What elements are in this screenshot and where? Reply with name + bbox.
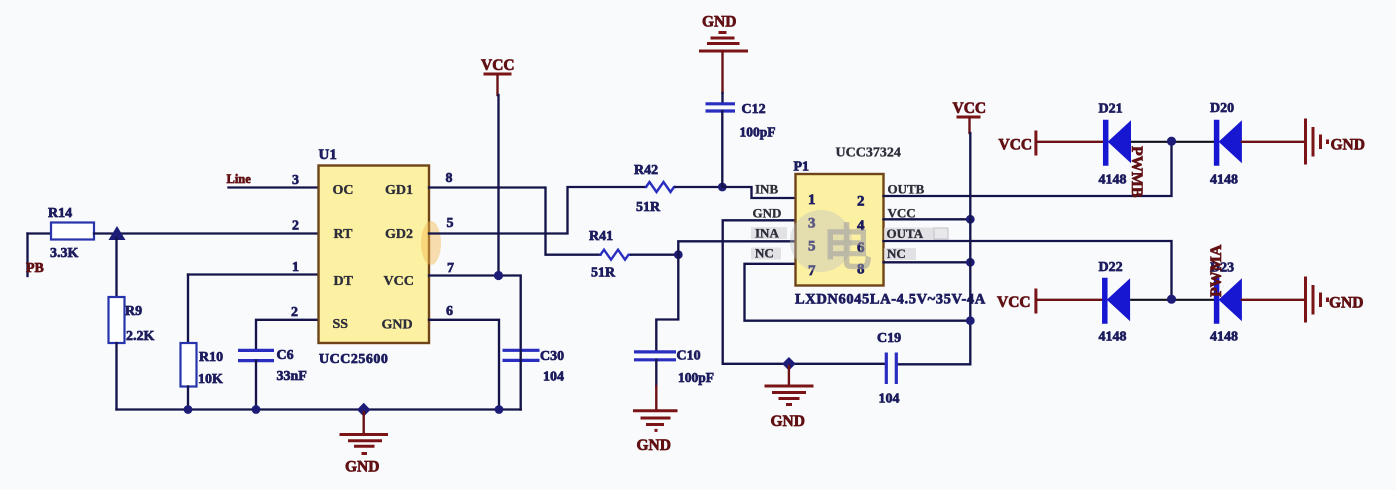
svg-text:2.2K: 2.2K: [126, 329, 155, 344]
resistor R9: [109, 297, 155, 344]
capacitor C19: [877, 331, 901, 407]
junction pin8: [966, 258, 975, 267]
svg-text:UCC25600: UCC25600: [319, 352, 388, 367]
wire P1 pin2 OUTB: [884, 142, 1172, 196]
svg-text:R42: R42: [634, 163, 658, 178]
svg-text:INA: INA: [755, 226, 779, 241]
svg-text:P1: P1: [794, 160, 810, 175]
resistor R10: [181, 343, 224, 387]
svg-text:RT: RT: [334, 227, 354, 242]
wire U1 pin8 GD1 to R41: [429, 188, 601, 255]
svg-text:D22: D22: [1099, 260, 1123, 275]
wire C30 to rail: [520, 360, 522, 409]
svg-text:51R: 51R: [591, 266, 616, 281]
svg-text:R41: R41: [589, 229, 613, 244]
wire U1 pin6 GND down: [429, 320, 499, 410]
svg-text:GND: GND: [1331, 137, 1365, 154]
svg-text:GND: GND: [753, 206, 782, 221]
svg-text:VCC: VCC: [888, 206, 916, 221]
svg-text:R10: R10: [199, 350, 223, 365]
wire D22 to D23: [1130, 299, 1217, 301]
junction diamond mid GND: [782, 357, 796, 371]
ground symbol right bottom (rotated): [1306, 277, 1364, 323]
svg-text:GND: GND: [1329, 295, 1363, 312]
capacitor C6: [238, 348, 307, 384]
power VCC label D22 row: [997, 289, 1036, 314]
wire P1 pin6 OUTA: [884, 241, 1172, 299]
svg-text:4148: 4148: [1210, 330, 1238, 345]
diode D22: [1099, 260, 1131, 345]
svg-text:GD2: GD2: [385, 227, 413, 242]
svg-text:电: 电: [822, 220, 872, 276]
svg-text:NC: NC: [887, 246, 906, 261]
wire C10 to ground: [655, 360, 657, 411]
wire R41 to junction: [631, 254, 678, 256]
wire U1 pin SS to C6: [256, 320, 319, 350]
svg-text:GND: GND: [637, 437, 671, 454]
svg-text:33nF: 33nF: [277, 369, 307, 384]
svg-text:Line: Line: [227, 172, 252, 186]
junction C12 INB: [718, 183, 727, 192]
wire C12 to INB junction: [721, 111, 723, 187]
svg-text:D21: D21: [1099, 102, 1123, 117]
wire junction down to R9: [115, 238, 117, 299]
svg-text:100pF: 100pF: [678, 370, 714, 385]
wire C6 to rail: [255, 361, 257, 410]
svg-text:GD1: GD1: [385, 183, 413, 198]
wire top GND to C12: [721, 93, 723, 104]
svg-text:PWMB: PWMB: [1128, 146, 1145, 198]
node INA label: [751, 226, 787, 241]
svg-text:VCC: VCC: [953, 100, 987, 117]
wire VCC mid vertical: [896, 133, 970, 364]
svg-text:8: 8: [446, 171, 453, 186]
svg-text:2: 2: [292, 219, 299, 234]
svg-text:PWMA: PWMA: [1208, 244, 1225, 297]
power VCC label D21 row: [999, 131, 1036, 156]
svg-text:C12: C12: [742, 102, 766, 117]
svg-text:INB: INB: [755, 182, 778, 197]
wire R42 to junction: [676, 186, 723, 188]
svg-text:GND: GND: [345, 459, 379, 476]
svg-text:3: 3: [292, 173, 299, 188]
svg-text:6: 6: [446, 304, 453, 319]
svg-text:4148: 4148: [1099, 330, 1127, 345]
junction VCC pin7: [494, 271, 503, 280]
node NC label pin7: [751, 246, 781, 261]
watermark disc: [790, 210, 872, 276]
svg-text:NC: NC: [755, 246, 774, 261]
wire D20 to GND: [1242, 141, 1306, 143]
node NC label pin8: [884, 246, 916, 261]
svg-text:VCC: VCC: [481, 57, 515, 74]
wire VCC to D21: [1036, 141, 1106, 143]
svg-text:D20: D20: [1210, 101, 1234, 116]
svg-text:2: 2: [857, 194, 865, 210]
wire R10 to rail: [187, 387, 189, 410]
svg-text:PB: PB: [26, 261, 44, 276]
wire Line to U1 pin3 OC: [229, 186, 319, 188]
wire D23 to GND: [1242, 299, 1306, 301]
svg-text:2: 2: [291, 305, 298, 320]
svg-text:10K: 10K: [198, 372, 223, 387]
svg-text:VCC: VCC: [997, 294, 1031, 311]
power VCC symbol mid: [953, 100, 987, 133]
wire VCC down to pin7 net: [497, 95, 499, 276]
junction triangle node: [109, 226, 126, 240]
svg-text:4148: 4148: [1210, 173, 1238, 188]
wire VCC to D22: [1036, 299, 1105, 301]
svg-text:GND: GND: [771, 413, 805, 430]
wire U1 pin1 DT down to R10: [187, 275, 189, 345]
wire U1 pin7 VCC to C30: [429, 276, 521, 351]
resistor R41: [589, 229, 631, 281]
svg-text:3.3K: 3.3K: [50, 246, 79, 261]
wire P1 pin3 GND route to rail: [723, 220, 887, 363]
wire U1 pin1 DT: [188, 273, 319, 275]
wire PB to R14: [28, 232, 52, 234]
svg-text:1: 1: [292, 260, 299, 275]
wire R14 to U1 pin2 RT: [94, 232, 319, 234]
wire bottom ground rail: [117, 408, 521, 410]
wire R9 to bottom rail: [115, 343, 117, 410]
svg-text:R9: R9: [125, 304, 142, 319]
node PB label: [26, 234, 44, 277]
svg-text:LXDN6045LA-4.5V~35V-4A: LXDN6045LA-4.5V~35V-4A: [795, 292, 986, 308]
svg-text:VCC: VCC: [999, 137, 1033, 154]
capacitor C30: [503, 349, 565, 385]
junction OUTB diodes: [1167, 137, 1176, 146]
svg-text:1: 1: [808, 192, 816, 208]
capacitor C12: [706, 102, 776, 140]
wire U1 pin5 GD2 to R42: [429, 187, 646, 234]
diode D21: [1099, 102, 1132, 188]
diode D20: [1210, 101, 1242, 188]
wire C10 branch: [656, 255, 678, 352]
wire INA from R41 junction to P1 pin5: [678, 241, 795, 254]
svg-text:51R: 51R: [636, 200, 661, 215]
svg-text:GND: GND: [382, 318, 413, 333]
junction pin4 VCC: [966, 215, 975, 224]
svg-text:4148: 4148: [1099, 173, 1127, 188]
svg-text:OUTA: OUTA: [887, 226, 924, 241]
svg-text:UCC37324: UCC37324: [836, 146, 901, 161]
junction R41 out: [674, 250, 683, 259]
svg-text:100pF: 100pF: [740, 125, 776, 140]
svg-text:C6: C6: [277, 348, 294, 363]
ground symbol top (inverted): [699, 14, 748, 94]
junction R10 rail: [184, 405, 193, 414]
svg-text:5: 5: [447, 216, 454, 231]
resistor R42: [634, 163, 676, 215]
svg-text:7: 7: [447, 261, 454, 276]
junction pin6 rail: [495, 405, 504, 414]
svg-text:DT: DT: [334, 274, 354, 289]
wire INB junction to P1 pin1: [722, 187, 795, 198]
svg-text:C19: C19: [877, 331, 901, 346]
ground symbol under C10: [633, 411, 678, 454]
svg-text:104: 104: [879, 392, 900, 407]
op-amp P1 UCC37324: [794, 146, 986, 308]
wire P1 pin8 NC: [884, 261, 971, 263]
svg-text:OC: OC: [333, 183, 354, 198]
wire P1 pin7 NC route: [745, 264, 971, 321]
resistor R14: [48, 206, 94, 261]
wire P1 pin4 VCC: [884, 218, 971, 220]
svg-text:OUTB: OUTB: [888, 182, 925, 197]
diode D23: [1210, 261, 1242, 345]
junction OUTA diodes: [1167, 295, 1176, 304]
svg-text:U1: U1: [319, 147, 337, 163]
svg-text:R14: R14: [48, 206, 72, 221]
junction NC rail VCC: [966, 316, 975, 325]
capacitor C10: [634, 349, 714, 386]
svg-text:C10: C10: [677, 349, 701, 364]
svg-text:VCC: VCC: [384, 274, 414, 289]
junction diamond rail GND: [357, 403, 371, 417]
ground symbol bottom center: [340, 412, 389, 476]
op-amp U1 UCC25600: [319, 147, 430, 367]
svg-text:SS: SS: [333, 317, 349, 332]
svg-text:104: 104: [543, 370, 564, 385]
junction C6 rail: [252, 405, 261, 414]
power VCC symbol left: [481, 57, 515, 95]
svg-text:C30: C30: [540, 349, 564, 364]
watermark smudge U1 edge: [421, 221, 441, 265]
wire D21 to D20: [1131, 141, 1217, 143]
ground symbol right top (rotated): [1306, 119, 1365, 165]
node OUTA label: [884, 226, 948, 241]
svg-text:GND: GND: [702, 14, 736, 31]
ground symbol mid: [765, 366, 814, 430]
